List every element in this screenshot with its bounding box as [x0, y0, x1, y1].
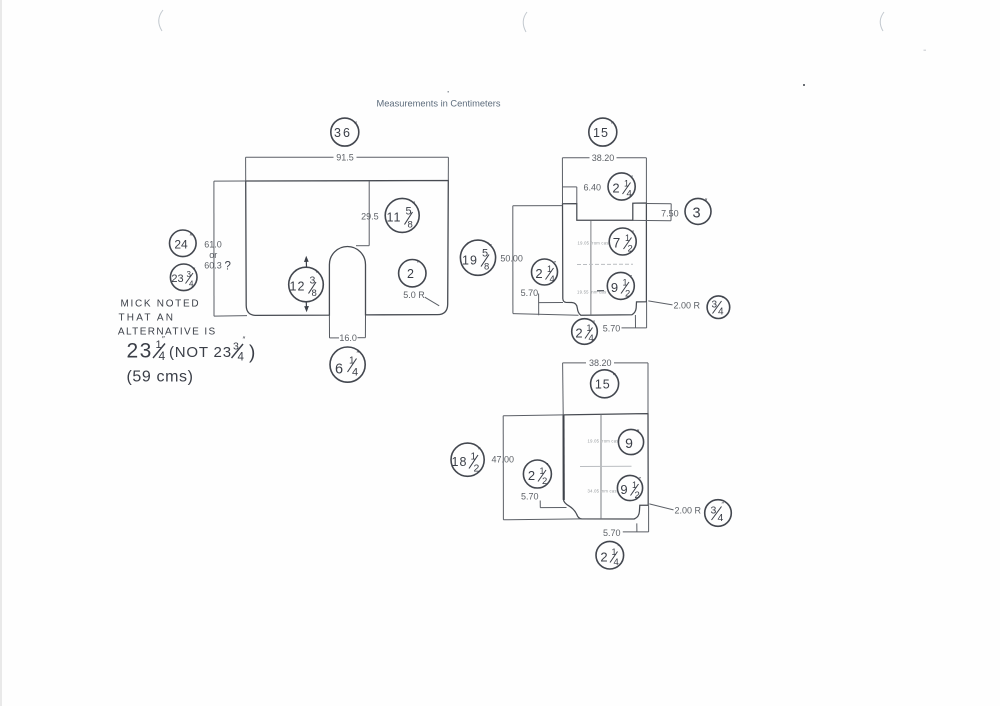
- shelf outline lower: [563, 414, 648, 519]
- svg-text:4: 4: [718, 307, 724, 318]
- svg-text:2: 2: [575, 326, 582, 341]
- arrow down below 12 3/8: [305, 302, 307, 310]
- balloon 24": [170, 230, 197, 257]
- svg-text:?: ?: [225, 261, 231, 273]
- svg-text:″: ″: [190, 233, 193, 242]
- svg-text:2: 2: [635, 490, 640, 501]
- balloon 12 3/8" with arrows: [289, 267, 324, 302]
- svg-text:1: 1: [632, 480, 637, 490]
- svg-text:ALTERNATIVE IS: ALTERNATIVE IS: [118, 327, 217, 338]
- svg-text:4: 4: [614, 557, 619, 568]
- balloon 2 1/4" top: [608, 173, 635, 200]
- svg-text:8: 8: [312, 288, 317, 299]
- svg-text:9: 9: [611, 280, 618, 295]
- svg-text:60.3: 60.3: [204, 260, 222, 270]
- svg-text:29.5: 29.5: [361, 211, 379, 221]
- svg-text:″: ″: [417, 260, 420, 269]
- svg-text:9: 9: [625, 435, 633, 451]
- balloon 7 1/2": [609, 228, 636, 255]
- dim 38.20 lower: [563, 363, 648, 415]
- svg-text:50.00: 50.00: [500, 253, 523, 263]
- svg-text:16.0: 16.0: [339, 333, 357, 343]
- balloon 2 1/4" left: [532, 259, 558, 285]
- centre line upper: [590, 220, 592, 314]
- svg-text:7: 7: [613, 236, 621, 251]
- LOWER-RIGHT-DRAWING: [451, 358, 731, 569]
- shelf outline upper: [563, 203, 647, 315]
- svg-text:3: 3: [187, 270, 192, 279]
- dim 61.0: [214, 181, 247, 316]
- svg-text:): ): [249, 343, 255, 364]
- svg-text:1: 1: [547, 264, 552, 274]
- balloon 15" upper: [589, 118, 617, 146]
- svg-text:2.00 R: 2.00 R: [674, 301, 701, 311]
- dim 29.5: [368, 181, 370, 246]
- svg-text:2: 2: [542, 476, 547, 487]
- dim 50.00: [513, 206, 579, 316]
- plate outline left: [246, 181, 449, 316]
- svg-text:2: 2: [535, 266, 542, 281]
- svg-text:15: 15: [595, 378, 611, 392]
- svg-text:36: 36: [334, 126, 352, 140]
- svg-text:4: 4: [238, 352, 245, 364]
- svg-text:34.05 mm cas: 34.05 mm cas: [588, 488, 617, 493]
- svg-text:or: or: [209, 250, 217, 260]
- handwriting 23 1/4 (NOT 23 3/4): [127, 335, 256, 364]
- balloon 9 1/2": [617, 475, 642, 500]
- faint mid line upper: [577, 263, 633, 265]
- svg-text:″: ″: [478, 446, 481, 455]
- svg-text:7.50: 7.50: [661, 209, 679, 219]
- svg-text:(NOT 23: (NOT 23: [169, 344, 232, 361]
- svg-text:91.5: 91.5: [336, 153, 354, 163]
- svg-text:2: 2: [612, 181, 619, 196]
- pen dash: [597, 290, 604, 292]
- svg-text:23: 23: [171, 273, 183, 285]
- balloon 2 1/4" bottom lower: [596, 541, 624, 569]
- balloon 11 5/8": [385, 198, 419, 232]
- svg-text:″: ″: [637, 429, 640, 438]
- svg-text:6: 6: [335, 362, 343, 378]
- dim 16.0: [330, 337, 366, 339]
- svg-text:4: 4: [352, 367, 358, 379]
- centre line lower: [600, 414, 602, 519]
- balloon 19 5/8": [460, 240, 495, 275]
- svg-text:2: 2: [625, 289, 630, 300]
- svg-text:24: 24: [174, 237, 188, 251]
- svg-text:4: 4: [189, 280, 194, 289]
- svg-text:1: 1: [624, 179, 629, 189]
- svg-text:19.05 from cas: 19.05 from cas: [588, 438, 619, 443]
- balloon 3/4" upper: [707, 296, 730, 319]
- svg-text:4: 4: [589, 333, 594, 344]
- dim 38.20 upper: [562, 158, 646, 204]
- svg-text:2: 2: [474, 463, 480, 475]
- svg-text:5.70: 5.70: [603, 528, 621, 538]
- svg-text:″: ″: [413, 200, 416, 209]
- svg-text:5.70: 5.70: [603, 324, 621, 334]
- svg-text:1: 1: [587, 323, 592, 333]
- dim 7.50: [633, 204, 672, 221]
- balloon 2 1/4" bottom upper: [572, 319, 598, 345]
- balloon 3/4" lower: [705, 500, 732, 527]
- svg-text:THAT AN: THAT AN: [119, 312, 176, 323]
- SCAN-NOISE: [159, 10, 884, 32]
- svg-text:19: 19: [462, 254, 478, 268]
- svg-text:1: 1: [612, 547, 617, 557]
- svg-text:15: 15: [593, 126, 609, 140]
- svg-text:″: ″: [354, 121, 357, 130]
- svg-text:23: 23: [127, 340, 153, 363]
- svg-text:3: 3: [692, 206, 700, 222]
- svg-text:47.00: 47.00: [492, 454, 515, 464]
- svg-text:11: 11: [387, 211, 402, 225]
- balloon 2": [399, 260, 426, 287]
- svg-text:5.70: 5.70: [521, 492, 539, 502]
- svg-text:2: 2: [600, 550, 607, 565]
- UPPER-RIGHT-DRAWING: [500, 118, 729, 344]
- label 2.00 R upper with leader: [648, 301, 672, 305]
- balloon 6 1/4": [330, 347, 365, 382]
- svg-text:″: ″: [489, 242, 492, 251]
- svg-text:9: 9: [620, 482, 627, 497]
- svg-text:2: 2: [528, 468, 535, 483]
- svg-text:5.0 R: 5.0 R: [403, 290, 425, 300]
- svg-text:MICK NOTED: MICK NOTED: [121, 299, 201, 310]
- arrow up above 12 3/8: [305, 258, 307, 267]
- balloon 18 1/2": [451, 443, 484, 476]
- svg-text:38.20: 38.20: [592, 153, 615, 163]
- LEFT-DRAWING: [118, 118, 496, 385]
- dim 91.5: [246, 157, 449, 181]
- svg-text:1: 1: [540, 466, 545, 476]
- balloon 2 1/2" lower: [523, 460, 551, 488]
- svg-text:(59 cms): (59 cms): [127, 369, 194, 386]
- balloon 36": [331, 118, 359, 146]
- svg-text:″: ″: [611, 121, 614, 130]
- svg-text:″: ″: [705, 198, 708, 207]
- svg-text:2: 2: [407, 267, 414, 281]
- balloon 9": [618, 429, 643, 454]
- svg-text:3: 3: [712, 300, 718, 311]
- svg-text:19.05 from cas: 19.05 from cas: [578, 240, 609, 245]
- svg-text:4: 4: [627, 189, 632, 200]
- balloon 23 3/4": [170, 264, 197, 291]
- svg-text:12: 12: [290, 280, 306, 294]
- svg-text:4: 4: [550, 274, 555, 285]
- balloon 15" lower: [591, 370, 619, 398]
- slot extension lines: [328, 315, 330, 338]
- svg-text:6.40: 6.40: [584, 183, 602, 193]
- svg-text:61.0: 61.0: [204, 240, 222, 250]
- svg-text:5.70: 5.70: [521, 288, 539, 298]
- svg-text:″: ″: [243, 336, 246, 345]
- faint mid line lower: [580, 465, 632, 467]
- svg-text:4: 4: [718, 512, 724, 524]
- svg-text:″: ″: [162, 335, 165, 344]
- svg-text:4: 4: [159, 349, 166, 363]
- thick left edge lower: [563, 415, 565, 500]
- svg-text:″: ″: [613, 372, 616, 381]
- svg-text:8: 8: [408, 220, 413, 231]
- dim 47.00: [503, 415, 581, 520]
- dim 6.40: [562, 186, 576, 188]
- svg-text:2: 2: [628, 244, 633, 255]
- balloon 3": [685, 198, 711, 224]
- svg-text:2.00 R: 2.00 R: [675, 505, 702, 515]
- svg-text:Measurements in Centimeters: Measurements in Centimeters: [377, 99, 501, 109]
- svg-text:18: 18: [452, 455, 468, 469]
- svg-text:38.20: 38.20: [589, 358, 612, 368]
- label 2.00 R lower with leader: [649, 504, 673, 510]
- balloon 9 1/2": [607, 272, 634, 299]
- svg-text:8: 8: [484, 262, 489, 273]
